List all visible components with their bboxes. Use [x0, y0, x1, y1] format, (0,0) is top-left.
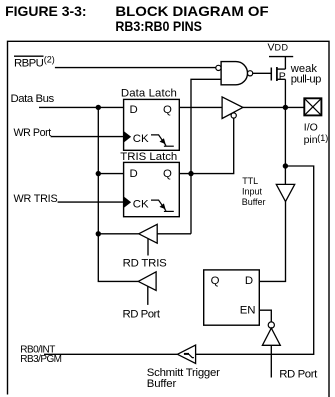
- svg-text:TRIS Latch: TRIS Latch: [120, 151, 177, 163]
- svg-text:RD Port: RD Port: [123, 308, 161, 320]
- svg-text:RB3:RB0 PINS: RB3:RB0 PINS: [115, 19, 202, 34]
- svg-text:CK: CK: [133, 198, 149, 210]
- svg-text:D: D: [245, 275, 253, 287]
- svg-text:Q: Q: [211, 275, 220, 287]
- svg-text:RBPU: RBPU: [14, 58, 44, 70]
- svg-text:Buffer: Buffer: [147, 378, 177, 390]
- svg-text:RB3/PGM: RB3/PGM: [20, 354, 61, 365]
- svg-text:CK: CK: [133, 133, 149, 145]
- svg-text:Q: Q: [163, 168, 172, 180]
- svg-text:pull-up: pull-up: [291, 73, 321, 85]
- svg-text:FIGURE 3-3:: FIGURE 3-3:: [5, 4, 87, 19]
- svg-text:D: D: [130, 168, 138, 180]
- svg-text:RD TRIS: RD TRIS: [123, 257, 168, 269]
- svg-text:WR Port: WR Port: [14, 127, 52, 139]
- svg-text:TTL: TTL: [242, 176, 258, 186]
- svg-text:Data Latch: Data Latch: [121, 87, 177, 99]
- svg-text:(2): (2): [44, 55, 55, 65]
- svg-text:Input: Input: [242, 187, 263, 197]
- svg-text:Buffer: Buffer: [242, 197, 266, 207]
- svg-text:P: P: [279, 70, 286, 82]
- svg-text:EN: EN: [240, 304, 256, 316]
- svg-text:VDD: VDD: [268, 42, 289, 54]
- svg-text:BLOCK DIAGRAM OF: BLOCK DIAGRAM OF: [115, 4, 268, 19]
- svg-text:Data Bus: Data Bus: [11, 93, 55, 105]
- svg-text:pin: pin: [304, 134, 318, 146]
- svg-text:RD Port: RD Port: [279, 369, 318, 381]
- svg-text:(1): (1): [317, 133, 328, 143]
- svg-text:WR TRIS: WR TRIS: [14, 193, 58, 205]
- svg-text:I/O: I/O: [304, 121, 318, 133]
- svg-text:Q: Q: [163, 104, 172, 116]
- svg-text:D: D: [130, 104, 138, 116]
